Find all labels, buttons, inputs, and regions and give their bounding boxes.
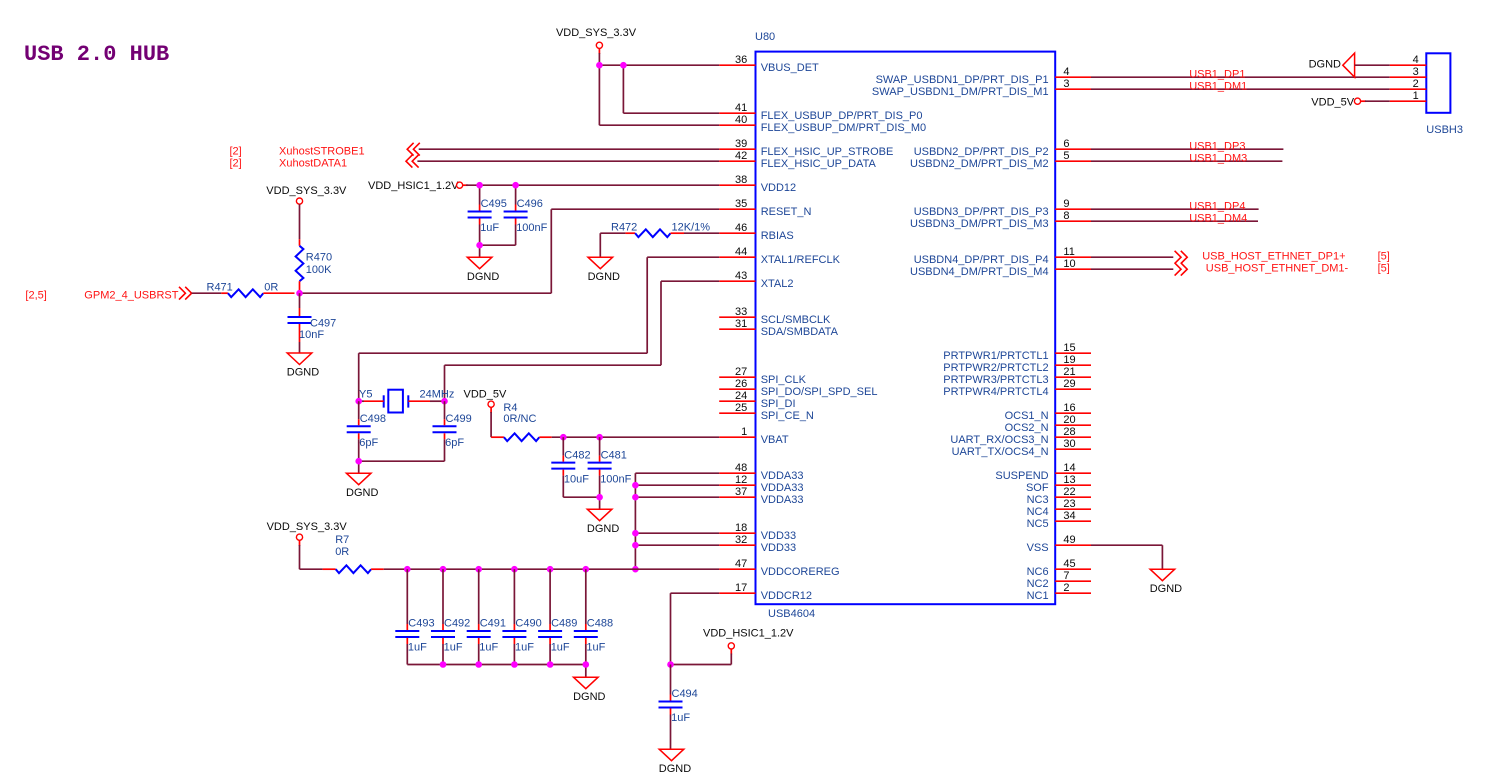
svg-text:C495: C495 [481, 198, 507, 210]
power VDD_SYS_3.3V (top) [556, 27, 637, 54]
svg-text:43: 43 [735, 270, 747, 282]
pin 6 USBDN2_DP/PRT_DIS_P2 [914, 138, 1091, 158]
pin 32 VDD33 [719, 534, 796, 554]
svg-text:12: 12 [735, 474, 747, 486]
pin 21 PRTPWR3/PRTCTL3 [943, 366, 1091, 386]
wire VBAT [552, 436, 720, 438]
junction bank bottom x514.4 [511, 661, 518, 668]
pin 35 RESET_N [719, 198, 811, 218]
svg-text:27: 27 [735, 366, 747, 378]
svg-text:C490: C490 [515, 618, 541, 630]
pin 31 SDA/SMBDATA [719, 318, 838, 338]
resistor R7 0R [300, 534, 384, 573]
junction bus 35 [632, 482, 639, 489]
svg-text:NC2: NC2 [1027, 578, 1049, 590]
pin 1 VBAT [719, 426, 789, 446]
pin 7 NC2 [1027, 570, 1091, 590]
svg-text:1uF: 1uF [408, 642, 427, 654]
svg-text:FLEX_HSIC_UP_STROBE: FLEX_HSIC_UP_STROBE [761, 146, 894, 158]
svg-text:DGND: DGND [588, 271, 620, 283]
svg-text:PRTPWR1/PRTCTL1: PRTPWR1/PRTCTL1 [943, 350, 1048, 362]
svg-text:4: 4 [1063, 66, 1069, 78]
svg-text:6pF: 6pF [445, 437, 464, 449]
svg-text:16: 16 [1063, 402, 1075, 414]
junction bus 39 [632, 530, 639, 537]
svg-text:9: 9 [1063, 198, 1069, 210]
svg-text:DGND: DGND [287, 367, 319, 379]
pin 28 UART_RX/OCS3_N [950, 426, 1091, 446]
svg-text:7: 7 [1063, 570, 1069, 582]
ground DGND under C481 [587, 509, 619, 535]
svg-text:28: 28 [1063, 426, 1075, 438]
svg-text:USB1_DM4: USB1_DM4 [1189, 212, 1247, 224]
svg-text:UART_TX/OCS4_N: UART_TX/OCS4_N [952, 446, 1049, 458]
svg-text:VSS: VSS [1027, 542, 1049, 554]
svg-text:VDD_SYS_3.3V: VDD_SYS_3.3V [267, 521, 348, 533]
pin 15 PRTPWR1/PRTCTL1 [943, 342, 1091, 362]
pin 36 VBUS_DET [719, 54, 819, 74]
svg-text:C491: C491 [480, 618, 506, 630]
svg-text:SPI_CLK: SPI_CLK [761, 374, 807, 386]
svg-text:VDDA33: VDDA33 [761, 494, 804, 506]
svg-text:41: 41 [735, 102, 747, 114]
svg-text:C498: C498 [360, 413, 386, 425]
svg-text:100nF: 100nF [600, 473, 631, 485]
wire VDD_SYS_3.3V to pins 36/41/40 [599, 53, 719, 125]
ground DGND under cap bank [573, 677, 605, 703]
chevron USB_HOST_ETHNET_DP1+ [1175, 251, 1188, 264]
pin 48 VDDA33 [719, 462, 803, 482]
svg-text:23: 23 [1063, 498, 1075, 510]
svg-text:VBUS_DET: VBUS_DET [761, 62, 819, 74]
svg-text:UART_RX/OCS3_N: UART_RX/OCS3_N [950, 434, 1048, 446]
svg-text:100K: 100K [306, 264, 332, 276]
title USB 2.0 HUB [24, 42, 169, 67]
capacitor C498 6pF [347, 401, 386, 461]
svg-text:R470: R470 [306, 252, 332, 264]
svg-text:C493: C493 [408, 618, 434, 630]
pin 5 USBDN2_DM/PRT_DIS_M2 [910, 150, 1091, 170]
svg-text:USB_HOST_ETHNET_DP1+: USB_HOST_ETHNET_DP1+ [1202, 251, 1345, 263]
pin 49 VSS [1027, 534, 1091, 554]
svg-text:0R: 0R [264, 281, 278, 293]
node GPM2_4_USBRST off-page [25, 290, 178, 302]
capacitor C496 [504, 185, 548, 245]
svg-text:0R/NC: 0R/NC [503, 413, 536, 425]
svg-text:48: 48 [735, 462, 747, 474]
svg-text:44: 44 [735, 246, 747, 258]
svg-text:20: 20 [1063, 414, 1075, 426]
pin 18 VDD33 [719, 522, 796, 542]
svg-text:SPI_CE_N: SPI_CE_N [761, 410, 814, 422]
pin 34 NC5 [1027, 510, 1091, 530]
wire VDDCOREREG rail [384, 568, 720, 570]
svg-text:FLEX_HSIC_UP_DATA: FLEX_HSIC_UP_DATA [761, 158, 877, 170]
svg-text:13: 13 [1063, 474, 1075, 486]
svg-text:XuhostDATA1: XuhostDATA1 [279, 158, 347, 170]
pin 30 UART_TX/OCS4_N [952, 438, 1091, 458]
pin 4 USBH3 [1390, 54, 1427, 66]
svg-text:XuhostSTROBE1: XuhostSTROBE1 [279, 146, 365, 158]
pin 46 RBIAS [719, 222, 794, 242]
svg-text:C497: C497 [310, 318, 336, 330]
junction rail cap top x478.7 [475, 566, 482, 573]
svg-text:25: 25 [735, 402, 747, 414]
pin 26 SPI_DO/SPI_SPD_SEL [719, 378, 877, 398]
svg-text:22: 22 [1063, 486, 1075, 498]
wire USB1_DP4 [1091, 208, 1259, 210]
svg-text:10uF: 10uF [564, 473, 589, 485]
svg-text:14: 14 [1063, 462, 1075, 474]
svg-text:1uF: 1uF [671, 712, 690, 724]
svg-text:U80: U80 [755, 31, 775, 43]
svg-text:4: 4 [1413, 54, 1419, 66]
pin 9 USBDN3_DP/PRT_DIS_P3 [914, 198, 1091, 218]
IC U80 USB4604 [755, 31, 1055, 620]
wire cap bank bottom rail [407, 665, 586, 678]
pin 4 SWAP_USBDN1_DP/PRT_DIS_P1 [876, 66, 1091, 86]
wire VDDA33/VDD33 bus [635, 473, 719, 569]
pin 10 USBDN4_DM/PRT_DIS_M4 [910, 258, 1091, 278]
svg-text:46: 46 [735, 222, 747, 234]
wire XTAL2 pin43 [445, 281, 720, 401]
junction bus 36 [632, 494, 639, 501]
svg-text:SDA/SMBDATA: SDA/SMBDATA [761, 326, 839, 338]
junction C494 top [667, 661, 674, 668]
svg-text:DGND: DGND [573, 691, 605, 703]
junction C495 top [476, 182, 483, 189]
pin 38 VDD12 [719, 174, 796, 194]
pin 37 VDDA33 [719, 486, 803, 506]
chevron USB_HOST_ETHNET_DM1- [1175, 263, 1188, 276]
node USB1_DM3 [1189, 152, 1247, 164]
svg-text:VDD_5V: VDD_5V [464, 388, 507, 400]
pin 11 USBDN4_DP/PRT_DIS_P4 [914, 246, 1091, 266]
svg-text:DGND: DGND [659, 763, 691, 775]
svg-text:R471: R471 [207, 281, 233, 293]
node USB_HOST_ETHNET_DP1+ [1202, 251, 1390, 263]
power VDD_SYS_3.3V (left, R470) [266, 185, 347, 204]
svg-text:DGND: DGND [1309, 59, 1341, 71]
svg-text:VDD_SYS_3.3V: VDD_SYS_3.3V [556, 27, 637, 39]
svg-text:VDD_SYS_3.3V: VDD_SYS_3.3V [266, 185, 347, 197]
svg-text:1uF: 1uF [480, 222, 499, 234]
node USB1_DP3 [1189, 140, 1245, 152]
junction R470/R471/C497 [296, 290, 303, 297]
svg-text:NC1: NC1 [1027, 590, 1049, 602]
junction rail cap top x514.4 [511, 566, 518, 573]
svg-text:32: 32 [735, 534, 747, 546]
pin 17 VDDCR12 [719, 582, 812, 602]
svg-text:37: 37 [735, 486, 747, 498]
svg-text:RBIAS: RBIAS [761, 230, 794, 242]
pin 12 VDDA33 [719, 474, 803, 494]
pin 19 PRTPWR2/PRTCTL2 [943, 354, 1091, 374]
svg-text:USBDN2_DM/PRT_DIS_M2: USBDN2_DM/PRT_DIS_M2 [910, 158, 1049, 170]
svg-text:DGND: DGND [467, 271, 499, 283]
svg-text:Y5: Y5 [359, 388, 372, 400]
svg-text:C494: C494 [672, 688, 698, 700]
node USB1_DP4 [1189, 200, 1245, 212]
svg-text:C488: C488 [587, 618, 613, 630]
svg-text:SPI_DI: SPI_DI [761, 398, 796, 410]
svg-text:VDDCOREREG: VDDCOREREG [761, 566, 840, 578]
capacitor C488 1uF [574, 569, 613, 664]
junction top power 1 [596, 62, 603, 69]
svg-text:0R: 0R [335, 546, 349, 558]
svg-text:2: 2 [1063, 582, 1069, 594]
pin 3 SWAP_USBDN1_DM/PRT_DIS_M1 [872, 78, 1091, 98]
junction C498 bottom [355, 458, 362, 465]
pin 33 SCL/SMBCLK [719, 306, 831, 326]
wire VDDCR12 [671, 593, 720, 664]
svg-text:39: 39 [735, 138, 747, 150]
svg-text:USB1_DP1: USB1_DP1 [1189, 68, 1245, 80]
svg-text:3: 3 [1063, 78, 1069, 90]
pin 23 NC4 [1027, 498, 1091, 518]
pin 41 FLEX_USBUP_DP/PRT_DIS_P0 [719, 102, 922, 122]
wire USB_HOST_ETHNET_DP1+ [1091, 256, 1173, 258]
svg-text:SWAP_USBDN1_DP/PRT_DIS_P1: SWAP_USBDN1_DP/PRT_DIS_P1 [876, 74, 1049, 86]
resistor R470 100K [296, 204, 333, 293]
svg-text:NC6: NC6 [1027, 566, 1049, 578]
wire USB1_DP3 [1091, 148, 1283, 150]
svg-text:10nF: 10nF [299, 329, 324, 341]
svg-text:XTAL1/REFCLK: XTAL1/REFCLK [761, 254, 841, 266]
svg-text:12K/1%: 12K/1% [672, 221, 711, 233]
svg-text:21: 21 [1063, 366, 1075, 378]
junction bank bottom x478.7 [475, 661, 482, 668]
svg-text:6pF: 6pF [359, 437, 378, 449]
pin 42 FLEX_HSIC_UP_DATA [719, 150, 876, 170]
svg-text:USB 2.0 HUB: USB 2.0 HUB [24, 42, 169, 67]
junction C481 top [596, 434, 603, 441]
wire USB1_DM1 [1091, 88, 1390, 90]
svg-text:USB4604: USB4604 [768, 608, 815, 620]
junction C482 top [560, 434, 567, 441]
svg-text:18: 18 [735, 522, 747, 534]
pin 24 SPI_DI [719, 390, 795, 410]
svg-text:[2,5]: [2,5] [25, 290, 46, 302]
chevron FLEX_HSIC_UP_STROBE [407, 143, 420, 156]
svg-text:C496: C496 [517, 198, 543, 210]
pin 14 SUSPEND [995, 462, 1091, 482]
junction bank bottom x585.8 [583, 661, 590, 668]
svg-text:SUSPEND: SUSPEND [995, 470, 1048, 482]
crystal Y5 24MHz [359, 388, 455, 412]
svg-text:30: 30 [1063, 438, 1075, 450]
svg-text:11: 11 [1063, 246, 1074, 258]
svg-text:FLEX_USBUP_DP/PRT_DIS_P0: FLEX_USBUP_DP/PRT_DIS_P0 [761, 110, 923, 122]
node USB_HOST_ETHNET_DM1- [1206, 263, 1390, 275]
ground DGND under R472 [588, 257, 620, 283]
power VDD_HSIC1_1.2V (top) [368, 180, 468, 192]
svg-text:3: 3 [1413, 66, 1419, 78]
pin 13 SOF [1026, 474, 1091, 494]
pin 22 NC3 [1027, 486, 1091, 506]
svg-text:RESET_N: RESET_N [761, 206, 812, 218]
pin 8 USBDN3_DM/PRT_DIS_M3 [910, 210, 1091, 230]
pin 2 USBH3 [1390, 78, 1427, 90]
svg-text:24: 24 [735, 390, 747, 402]
capacitor C493 1uF [395, 569, 434, 664]
svg-text:19: 19 [1063, 354, 1075, 366]
resistor R4 0R/NC [491, 402, 552, 441]
svg-text:40: 40 [735, 114, 747, 126]
junction rail cap top x585.8 [583, 566, 590, 573]
svg-text:SOF: SOF [1026, 482, 1049, 494]
node XuhostSTROBE1 off-page [230, 146, 365, 158]
svg-text:29: 29 [1063, 378, 1075, 390]
svg-text:100nF: 100nF [516, 222, 547, 234]
wire RBIAS [600, 233, 719, 257]
junction bank bottom x550.1 [547, 661, 554, 668]
svg-text:VDD_5V: VDD_5V [1311, 97, 1354, 109]
junction C495 bottom [476, 242, 483, 249]
svg-text:[5]: [5] [1378, 263, 1390, 275]
resistor R471 0R [207, 281, 295, 297]
junction Y5 left [355, 398, 362, 405]
pin 44 XTAL1/REFCLK [719, 246, 840, 266]
svg-text:1uF: 1uF [479, 642, 498, 654]
svg-text:[2]: [2] [230, 146, 242, 158]
capacitor C491 1uF [467, 569, 506, 664]
pin 43 XTAL2 [719, 270, 793, 290]
svg-text:R472: R472 [611, 221, 637, 233]
svg-text:USBDN3_DP/PRT_DIS_P3: USBDN3_DP/PRT_DIS_P3 [914, 206, 1049, 218]
svg-text:NC4: NC4 [1027, 506, 1049, 518]
wire USB_HOST_ETHNET_DM1- [1091, 268, 1173, 270]
svg-text:5: 5 [1063, 150, 1069, 162]
svg-text:VDD33: VDD33 [761, 530, 796, 542]
connector USBH3 [1426, 53, 1463, 136]
svg-text:1: 1 [741, 426, 747, 438]
svg-text:C482: C482 [564, 449, 590, 461]
pin 20 OCS2_N [1005, 414, 1091, 434]
wire XTAL1 pin44 [359, 257, 720, 401]
capacitor C499 6pF [433, 401, 472, 461]
junction rail cap top x407.3 [404, 566, 411, 573]
svg-text:PRTPWR4/PRTCTL4: PRTPWR4/PRTCTL4 [943, 386, 1048, 398]
svg-text:1uF: 1uF [586, 642, 605, 654]
wire USB1_DM4 [1091, 220, 1258, 222]
svg-text:1uF: 1uF [444, 642, 463, 654]
wire USB1_DM3 [1091, 160, 1282, 162]
pin 29 PRTPWR4/PRTCTL4 [943, 378, 1091, 398]
svg-text:C489: C489 [551, 618, 577, 630]
svg-text:USBDN4_DM/PRT_DIS_M4: USBDN4_DM/PRT_DIS_M4 [910, 266, 1049, 278]
junction bank bottom x443.0 [440, 661, 447, 668]
pin 2 NC1 [1027, 582, 1091, 602]
power VDD_SYS_3.3V (bottom) [267, 521, 348, 569]
wire VDD_HSIC1 to pin 38 [466, 184, 719, 186]
junction bus 42 [632, 566, 639, 573]
svg-text:1uF: 1uF [551, 642, 570, 654]
pin 25 SPI_CE_N [719, 402, 814, 422]
svg-text:15: 15 [1063, 342, 1075, 354]
svg-text:PRTPWR3/PRTCTL3: PRTPWR3/PRTCTL3 [943, 374, 1048, 386]
pin 1 USBH3 [1390, 90, 1427, 102]
pin 39 FLEX_HSIC_UP_STROBE [719, 138, 893, 158]
wire crystal caps gnd rail [359, 461, 445, 473]
ground DGND under C497 [287, 353, 319, 379]
svg-text:USBDN2_DP/PRT_DIS_P2: USBDN2_DP/PRT_DIS_P2 [914, 146, 1049, 158]
ground DGND under C495/C496 [467, 257, 499, 283]
node USB1_DM4 [1189, 212, 1247, 224]
svg-text:SCL/SMBCLK: SCL/SMBCLK [761, 314, 831, 326]
svg-text:XTAL2: XTAL2 [761, 278, 794, 290]
junction rail cap top x443.0 [440, 566, 447, 573]
svg-text:DGND: DGND [587, 523, 619, 535]
power VDD_5V (crystal area) [464, 388, 507, 437]
ground DGND under C494 [659, 749, 691, 775]
svg-text:USB_HOST_ETHNET_DM1-: USB_HOST_ETHNET_DM1- [1206, 263, 1349, 275]
svg-text:NC5: NC5 [1027, 518, 1049, 530]
svg-text:OCS2_N: OCS2_N [1005, 422, 1049, 434]
chevron GPM2_4_USBRST [179, 287, 192, 300]
svg-text:C481: C481 [601, 449, 627, 461]
capacitor C492 1uF [431, 569, 470, 664]
svg-text:USBDN3_DM/PRT_DIS_M3: USBDN3_DM/PRT_DIS_M3 [910, 218, 1049, 230]
svg-text:OCS1_N: OCS1_N [1005, 410, 1049, 422]
node XuhostDATA1 off-page [230, 158, 348, 170]
svg-text:USBDN4_DP/PRT_DIS_P4: USBDN4_DP/PRT_DIS_P4 [914, 254, 1049, 266]
pin 45 NC6 [1027, 558, 1091, 578]
svg-text:SWAP_USBDN1_DM/PRT_DIS_M1: SWAP_USBDN1_DM/PRT_DIS_M1 [872, 86, 1049, 98]
capacitor C490 1uF [502, 569, 541, 664]
svg-text:GPM2_4_USBRST: GPM2_4_USBRST [84, 290, 178, 302]
svg-text:31: 31 [735, 318, 747, 330]
ground DGND arrow at USBH3 pin4 [1309, 53, 1390, 77]
svg-text:USB1_DP4: USB1_DP4 [1189, 200, 1245, 212]
svg-text:2: 2 [1413, 78, 1419, 90]
svg-text:FLEX_USBUP_DM/PRT_DIS_M0: FLEX_USBUP_DM/PRT_DIS_M0 [761, 122, 926, 134]
pin 16 OCS1_N [1005, 402, 1091, 422]
svg-text:SPI_DO/SPI_SPD_SEL: SPI_DO/SPI_SPD_SEL [761, 386, 878, 398]
svg-text:VDDA33: VDDA33 [761, 482, 804, 494]
svg-text:47: 47 [735, 558, 747, 570]
capacitor C482 10uF [551, 437, 599, 497]
svg-text:USB1_DP3: USB1_DP3 [1189, 140, 1245, 152]
wire GPM2 to R471 [192, 292, 222, 294]
node USB1_DM1 [1189, 80, 1247, 92]
svg-text:VBAT: VBAT [761, 434, 789, 446]
pin 47 VDDCOREREG [719, 558, 839, 578]
svg-text:10: 10 [1063, 258, 1075, 270]
svg-text:45: 45 [1063, 558, 1075, 570]
svg-text:24MHz: 24MHz [420, 388, 455, 400]
svg-text:VDD33: VDD33 [761, 542, 796, 554]
svg-text:34: 34 [1063, 510, 1075, 522]
ground DGND under C498 [346, 473, 378, 499]
svg-text:1: 1 [1413, 90, 1419, 102]
svg-text:1uF: 1uF [515, 642, 534, 654]
wire pin39 strobe [419, 148, 720, 150]
svg-text:VDDA33: VDDA33 [761, 470, 804, 482]
svg-text:PRTPWR2/PRTCTL2: PRTPWR2/PRTCTL2 [943, 362, 1048, 374]
junction C481 bottom [596, 494, 603, 501]
power VDD_HSIC1_1.2V (bottom) [671, 628, 795, 665]
wire C495/C496 bottoms [480, 245, 516, 257]
chevron FLEX_HSIC_UP_DATA [406, 155, 419, 168]
svg-text:C499: C499 [446, 413, 472, 425]
svg-text:33: 33 [735, 306, 747, 318]
svg-text:VDDCR12: VDDCR12 [761, 590, 812, 602]
capacitor C495 [468, 185, 507, 245]
capacitor C489 1uF [538, 569, 577, 664]
capacitor C497 10nF [288, 293, 337, 353]
junction top power 2 [620, 62, 627, 69]
